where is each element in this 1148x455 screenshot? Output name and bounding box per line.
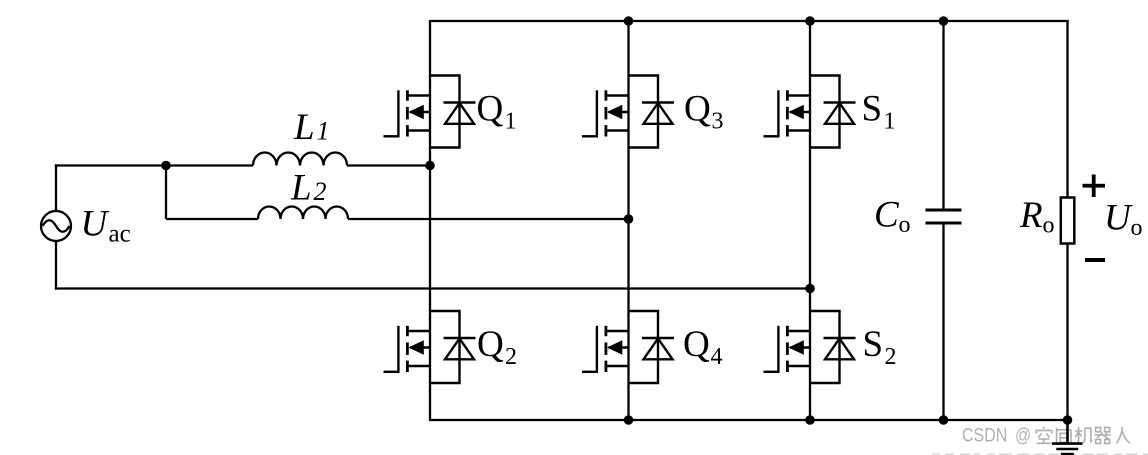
inductor L1 (coil)	[253, 153, 347, 166]
node: leg-2 midpoint junction	[624, 214, 634, 224]
svg-text:4: 4	[711, 344, 723, 370]
watermark (clipped second row at bottom edge)	[932, 454, 1148, 455]
AC source Uac (circle with sine wave)	[41, 211, 71, 241]
svg-text:o: o	[1131, 215, 1143, 241]
label Q3	[684, 89, 724, 135]
svg-text:2: 2	[314, 177, 327, 206]
inductor L2 (coil)	[258, 207, 348, 220]
svg-text:Q: Q	[683, 324, 710, 365]
node: leg-1 midpoint junction	[425, 161, 435, 171]
wire: bottom DC bus (-)	[429, 419, 1069, 421]
label L1	[293, 107, 330, 148]
transistor Q1 (MOSFET with body diode, top of leg 1)	[384, 76, 476, 148]
wire: L1 to leg-1 midpoint	[347, 164, 430, 166]
polarity plus sign (+)	[1083, 175, 1106, 198]
svg-text:C: C	[874, 195, 900, 236]
wire: top DC bus (+)	[429, 20, 1069, 22]
wire: L2 to leg-2 midpoint	[348, 218, 629, 220]
wire: input node down to L2 row	[165, 166, 167, 220]
svg-text:3: 3	[712, 109, 724, 135]
svg-text:L: L	[290, 168, 312, 209]
svg-text:1: 1	[505, 109, 517, 135]
label Q1	[477, 89, 517, 135]
wire: phase leg 3 vertical (S1/S2 half-bridge)	[809, 21, 811, 420]
wire: load leg lower	[1066, 244, 1068, 421]
svg-text:U: U	[81, 204, 110, 245]
node: bottom bus / load and ground	[1063, 415, 1073, 425]
svg-text:Q: Q	[477, 89, 504, 130]
svg-text:S: S	[862, 89, 883, 130]
label S2	[863, 324, 897, 370]
node: bottom bus / capacitor	[939, 415, 949, 425]
wire: source top horizontal to input node	[55, 164, 166, 166]
watermark text: CSDN @空间机器人	[962, 424, 1130, 446]
svg-text:1: 1	[884, 109, 896, 135]
node: leg-3 midpoint junction	[805, 284, 815, 294]
node: top bus / capacitor	[939, 16, 949, 26]
svg-text:U: U	[1104, 198, 1133, 239]
label Uo	[1104, 198, 1143, 242]
svg-text:Q: Q	[477, 324, 504, 365]
label Q2	[477, 324, 517, 370]
node: top bus / leg 2	[624, 16, 634, 26]
wire: load leg upper	[1066, 21, 1068, 198]
wire: capacitor leg lower	[942, 223, 944, 420]
label Q4	[683, 324, 723, 370]
resistor Ro (box)	[1061, 198, 1075, 244]
node: input junction (L1/L2 split)	[161, 161, 171, 171]
label Uac	[81, 204, 131, 248]
transistor Q2 (MOSFET with body diode, bottom of leg 1)	[384, 311, 476, 383]
transistor Q4 (MOSFET with body diode, bottom of leg 2)	[582, 311, 674, 383]
ground symbol	[1052, 420, 1083, 454]
svg-text:Q: Q	[684, 89, 711, 130]
svg-text:CSDN @: CSDN @	[962, 424, 1031, 446]
polarity minus sign (-)	[1085, 258, 1105, 262]
wire: node to inductor L1	[166, 164, 253, 166]
node: bottom bus / leg 2	[624, 415, 634, 425]
wire: capacitor leg upper	[942, 21, 944, 210]
node: top bus / leg 3	[805, 16, 815, 26]
label L2	[290, 168, 327, 209]
wire: source positive lead up	[55, 164, 57, 210]
wire: phase leg 1 vertical (Q1/Q2 half-bridge)	[429, 21, 431, 420]
label Co	[874, 195, 911, 239]
svg-text:ac: ac	[109, 221, 131, 248]
svg-text:L: L	[293, 107, 315, 148]
svg-text:o: o	[899, 212, 911, 238]
label Ro	[1019, 195, 1055, 239]
label S1	[862, 89, 896, 135]
svg-text:1: 1	[317, 117, 330, 146]
svg-text:o: o	[1043, 213, 1055, 239]
svg-text:2: 2	[885, 344, 897, 370]
svg-text:2: 2	[505, 344, 517, 370]
transistor Q3 (MOSFET with body diode, top of leg 2)	[582, 76, 674, 148]
transistor S1 (MOSFET with body diode, top of leg 3)	[764, 76, 856, 148]
svg-text:R: R	[1019, 195, 1043, 236]
transistor S2 (MOSFET with body diode, bottom of leg 3)	[764, 311, 856, 383]
wire: source negative lead down	[55, 242, 57, 290]
capacitor Co (plates)	[926, 210, 962, 223]
wire: to inductor L2	[166, 218, 258, 220]
wire: source bottom horizontal to leg-3 midpoint	[55, 287, 810, 289]
node: bottom bus / leg 3	[805, 415, 815, 425]
wire: phase leg 2 vertical (Q3/Q4 half-bridge)	[627, 21, 629, 420]
svg-text:S: S	[863, 324, 884, 365]
